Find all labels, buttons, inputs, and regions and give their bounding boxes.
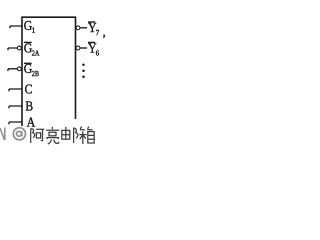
watermark character 箱 [79, 127, 94, 144]
inversion bubble G2B [17, 67, 21, 71]
pin label Y7 (active-low overline) [88, 19, 100, 37]
pin label G1 [24, 17, 36, 34]
svg-text:A: A [27, 113, 36, 129]
wire G1 input [10, 26, 22, 28]
svg-text:C: C [25, 81, 33, 97]
vertical ellipsis (remaining outputs) [82, 64, 85, 79]
decoder IC U1 (74LS138-style) body [22, 17, 76, 126]
watermark @ symbol [13, 128, 25, 140]
wire G2B input [8, 69, 17, 71]
watermark character 亮 [46, 127, 59, 144]
inversion bubble Y6 output [76, 46, 80, 50]
svg-text:B: B [25, 98, 33, 114]
pin label G2A (active-low overline) [24, 40, 40, 58]
watermark character 阿 [31, 129, 45, 144]
wire C input [9, 89, 22, 91]
wire Y6 output [80, 47, 87, 49]
inversion bubble Y7 output [76, 26, 80, 30]
wire B input [9, 106, 22, 108]
watermark character 邮 [62, 127, 78, 143]
svg-text:2A: 2A [32, 49, 40, 58]
svg-text:2B: 2B [32, 70, 40, 79]
wire G2A input [8, 48, 17, 50]
watermark white halo [13, 127, 94, 145]
wire A input [9, 122, 22, 124]
wire Y7 output [80, 27, 87, 29]
svg-text:1: 1 [32, 26, 36, 34]
watermark letter N (cropped) [0, 128, 5, 141]
pin label Y6 (active-low overline) [88, 39, 100, 57]
svg-text:7: 7 [96, 29, 100, 37]
inversion bubble G2A [17, 46, 21, 50]
comma punctuation after Y7 [103, 35, 105, 39]
pin label G2B (active-low overline) [24, 60, 40, 78]
svg-text:6: 6 [96, 49, 100, 57]
